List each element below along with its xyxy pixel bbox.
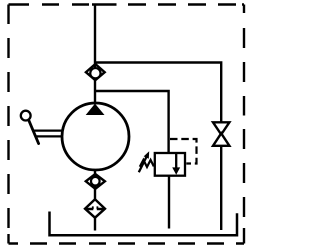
enclosure dashed border right [243,5,245,244]
enclosure dashed border top [9,3,245,5]
drive shaft double line [34,129,63,131]
lever knob [21,111,31,121]
wire: branch to shut-off valve (node at y=62.5) [95,63,221,123]
wire: shut-off valve to tank [220,146,222,230]
relief valve spring [140,160,154,167]
pump P1 flow triangle [86,104,105,115]
tank T1 [50,212,238,236]
relief valve internal flow arrow [175,154,177,169]
wire: filter to tank [94,218,96,231]
check valve upper (ball) [90,68,100,78]
check valve lower (ball) [91,177,100,186]
relief valve adjustment arrow [139,155,148,173]
shut-off valve V1 upper triangle [213,122,229,134]
enclosure dashed border bottom [9,242,245,244]
check valve lower (seat diamond) [86,174,105,189]
pump P1 circle [62,103,129,170]
enclosure dashed border left [7,5,9,244]
relief valve RV1 body [155,153,185,176]
wire: relief valve drain to tank [168,176,170,229]
shut-off valve V1 lower triangle [213,133,229,146]
filter F1 diamond [85,199,105,217]
check valve upper (seat diamond) [86,64,105,80]
filter F1 element dashes [86,208,103,210]
relief valve pilot line (dashed) [170,139,197,164]
wire: pump outlet down [94,169,96,201]
wire: branch to relief valve (node at y=91) [95,91,169,153]
lever arm [29,121,39,144]
wire: pump pressure line to top port [94,5,96,105]
